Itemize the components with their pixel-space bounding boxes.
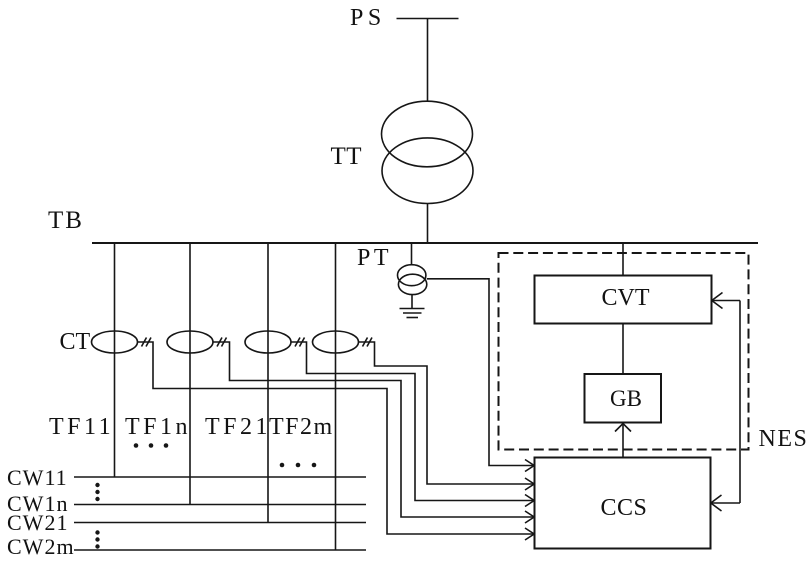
wire CT1 to CCS	[138, 342, 534, 534]
svg-text:TF2m: TF2m	[269, 414, 334, 440]
wire CW21	[74, 522, 366, 524]
bus TB	[92, 242, 758, 244]
svg-text:TT: TT	[331, 143, 363, 170]
wire PT to CCS	[427, 279, 534, 466]
svg-text:CW21: CW21	[7, 510, 68, 535]
current transformer CT2	[167, 331, 213, 353]
current transformer CT3	[245, 331, 291, 353]
ground	[400, 309, 425, 318]
wire TT to bus TB	[427, 204, 429, 244]
ellipsis between TF11 and TF1n feeders	[134, 443, 169, 448]
wire feeder 2	[189, 243, 191, 505]
dashed enclosure NES	[499, 253, 749, 450]
feedback wire into CCS	[711, 502, 741, 504]
svg-text:TF21: TF21	[205, 414, 271, 440]
svg-text:TF11: TF11	[49, 414, 114, 440]
wire CVT to GB	[622, 324, 624, 375]
block CCS	[535, 458, 711, 549]
svg-text:TB: TB	[48, 207, 84, 234]
wire CT4 to CCS	[359, 342, 534, 484]
current transformer CT4	[313, 331, 359, 353]
arrowhead PT into CCS	[525, 460, 534, 472]
block GB	[585, 374, 662, 423]
CT4 secondary marks	[363, 338, 373, 347]
svg-text:CW11: CW11	[7, 465, 68, 490]
wire CW2m	[74, 549, 366, 551]
vertical ellipsis between CW21 and CW2m	[95, 530, 99, 548]
wire feeder 3	[267, 243, 269, 523]
wire PS terminal	[397, 18, 459, 20]
arrowhead CT2 into CCS	[525, 511, 534, 523]
wire CT2 to CCS	[213, 342, 534, 517]
transformer TT primary winding	[382, 101, 473, 167]
wire bus to PT	[411, 243, 413, 265]
transformer TT secondary winding	[382, 138, 473, 204]
svg-text:CCS: CCS	[601, 495, 648, 521]
wire CW11	[74, 476, 366, 478]
ellipsis between TF21 and TF2m feeders	[280, 463, 317, 468]
vertical ellipsis between CW11 and CW1n	[95, 483, 99, 501]
wire PT to ground	[411, 295, 413, 309]
CT2 secondary marks	[217, 338, 227, 347]
wire feeder 4	[335, 243, 337, 550]
svg-text:GB: GB	[610, 386, 642, 411]
CT1 secondary marks	[142, 338, 152, 347]
wire feeder 1	[114, 243, 116, 477]
svg-text:NES: NES	[759, 426, 809, 452]
arrowhead CCS to GB	[615, 424, 631, 432]
current transformer CT1	[92, 331, 138, 353]
feedback wire vertical	[739, 301, 741, 504]
arrowhead CT3 into CCS	[525, 495, 534, 507]
arrowhead into CVT	[712, 293, 723, 309]
svg-text:PS: PS	[350, 5, 386, 31]
feedback wire CVT input	[712, 300, 741, 302]
svg-text:CVT: CVT	[602, 285, 650, 311]
wire CCS to GB	[622, 424, 624, 458]
wire CW1n	[74, 504, 366, 506]
wire PS to TT	[427, 19, 429, 103]
svg-text:CW2m: CW2m	[7, 534, 75, 559]
transformer PT secondary winding	[398, 274, 426, 294]
svg-text:CT: CT	[60, 329, 91, 355]
arrowhead CT1 into CCS	[525, 528, 534, 540]
svg-text:TF1n: TF1n	[125, 414, 191, 440]
CT3 secondary marks	[295, 338, 305, 347]
arrowhead into CCS right	[711, 495, 722, 511]
block CVT	[535, 276, 712, 324]
svg-text:PT: PT	[357, 245, 392, 271]
wire CT3 to CCS	[291, 342, 534, 501]
arrowhead CT4 into CCS	[525, 478, 534, 490]
transformer PT primary winding	[398, 265, 426, 286]
wire bus to CVT	[622, 243, 624, 276]
